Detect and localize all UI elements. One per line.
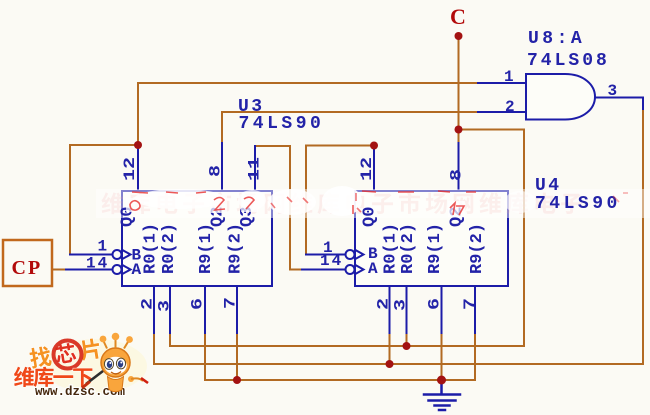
svg-text:14: 14 — [86, 255, 109, 273]
AND gate U8:A body — [526, 74, 595, 120]
svg-text:R0(2): R0(2) — [160, 223, 179, 274]
svg-text:1: 1 — [98, 238, 108, 256]
IC U4 pin leads — [302, 143, 475, 333]
IC U3 pin leads — [66, 143, 255, 333]
svg-text:1: 1 — [504, 68, 514, 86]
svg-text:R9(2): R9(2) — [468, 223, 487, 274]
svg-text:74LS90: 74LS90 — [239, 114, 325, 134]
svg-text:2: 2 — [139, 298, 157, 310]
wire U3 pin3 drop — [169, 333, 171, 346]
wire U4 pin3 drop — [406, 333, 408, 346]
svg-text:74LS90: 74LS90 — [535, 194, 621, 214]
wire gate output down right edge — [154, 108, 643, 364]
svg-text:U8:A: U8:A — [528, 29, 585, 49]
svg-text:6: 6 — [189, 298, 207, 310]
svg-text:Q0: Q0 — [361, 207, 380, 227]
wire Q0(U3) to gate input 1 — [138, 83, 478, 145]
watermark band — [96, 189, 650, 218]
svg-text:R9(1): R9(1) — [197, 223, 216, 274]
wire ground line R9 — [205, 379, 475, 381]
svg-text:R0(1): R0(1) — [142, 223, 161, 274]
svg-text:8: 8 — [448, 169, 466, 181]
svg-text:12: 12 — [359, 157, 377, 181]
wire Q0(U3) feedback to B input — [70, 145, 138, 255]
watermark logo — [14, 333, 148, 399]
wire U4 pin2 drop — [389, 333, 391, 364]
svg-text:74LS08: 74LS08 — [527, 51, 610, 71]
wire U4 pin6 drop — [441, 333, 443, 380]
svg-text:R0(2): R0(2) — [399, 223, 418, 274]
U3 clock bubble A pin — [113, 265, 122, 274]
ground — [424, 380, 460, 410]
wire CP to A input of U3 — [52, 269, 66, 271]
junction C / U4 pin8 — [455, 126, 463, 134]
junction U4 pin3 on R0(2) line — [403, 342, 411, 350]
svg-text:11: 11 — [246, 157, 264, 181]
svg-text:8: 8 — [207, 165, 225, 177]
node C port dot — [455, 32, 463, 40]
svg-text:7: 7 — [462, 298, 480, 310]
IC U4 74LS90 box — [355, 191, 508, 286]
junction U4 pin2 on R0(1) line — [386, 360, 394, 368]
junction U3 Q0 feedback — [134, 141, 142, 149]
svg-text:R9(2): R9(2) — [227, 223, 246, 274]
wire node C vertical — [458, 36, 460, 143]
wire Q2(U3) to gate input 2 — [222, 112, 478, 143]
svg-text:3: 3 — [392, 299, 410, 311]
wire U4 pin7 drop — [474, 333, 476, 380]
svg-text:U4: U4 — [535, 176, 562, 196]
red watermark scribbles — [126, 195, 465, 217]
junction U4 Q0 feedback — [370, 142, 378, 150]
svg-text:R9(1): R9(1) — [426, 223, 445, 274]
wire C branch to R0(2) line — [459, 130, 525, 347]
svg-text:6: 6 — [426, 298, 444, 310]
svg-text:14: 14 — [320, 252, 343, 270]
svg-text:7: 7 — [222, 297, 240, 309]
svg-text:2: 2 — [375, 298, 393, 310]
U4 clock bubble B pin — [346, 250, 355, 259]
wire U3 pin7 drop — [236, 333, 238, 380]
junction ground — [437, 376, 446, 385]
wire Q3(U3) to A input of U4 — [255, 146, 302, 270]
svg-text:A: A — [368, 260, 378, 278]
svg-text:R0(1): R0(1) — [382, 223, 401, 274]
svg-text:3: 3 — [608, 82, 618, 100]
wire Q0(U4) feedback to B input of U4 — [306, 146, 374, 255]
wire U3 pin2 drop — [153, 333, 155, 364]
svg-text:C: C — [450, 4, 466, 29]
svg-text:2: 2 — [505, 98, 515, 116]
CP port box — [3, 240, 52, 286]
U4 clock bubble A pin — [346, 265, 355, 274]
svg-text:A: A — [132, 261, 142, 279]
IC U3 74LS90 box — [122, 191, 272, 286]
wire U3 pin6 drop — [204, 333, 206, 380]
node junction dots — [134, 32, 463, 385]
svg-text:12: 12 — [122, 157, 140, 181]
U3 clock bubble B pin — [113, 250, 122, 259]
junction U3 pin7 on ground line — [233, 376, 241, 384]
svg-text:CP: CP — [12, 257, 43, 279]
svg-text:3: 3 — [156, 300, 174, 312]
AND gate U8:A pin leads — [478, 83, 643, 112]
wire R0(2) horizontal line — [170, 345, 524, 347]
